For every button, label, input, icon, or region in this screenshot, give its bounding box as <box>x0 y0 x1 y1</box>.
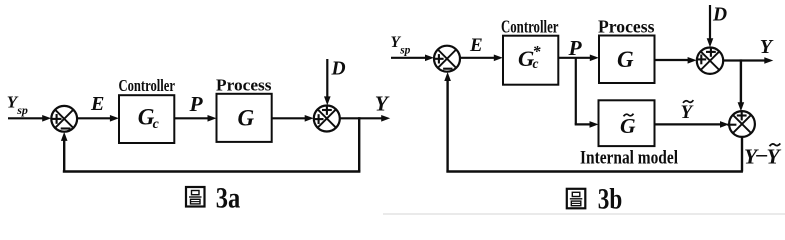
svg-text:Y: Y <box>375 92 390 116</box>
svg-text:P: P <box>568 36 583 60</box>
plus sign left S2b <box>696 55 706 65</box>
wire feedback up into S1a <box>61 132 68 173</box>
wire Gtilde to S3 <box>655 121 730 128</box>
block G process box (3a) <box>217 94 272 142</box>
wire feedback up into S1b <box>444 72 451 173</box>
plus sign S1a <box>52 114 62 124</box>
node Ysp label (3b) <box>391 34 411 56</box>
plus sign top S3 <box>737 111 747 121</box>
caption glyph TU (3a) <box>186 187 205 207</box>
block G process box (3b) <box>599 36 655 84</box>
plus sign top S2a <box>322 105 332 115</box>
svg-text:P: P <box>189 92 204 116</box>
wire P branch down to internal model <box>575 58 599 128</box>
plus sign left S2a <box>314 114 324 124</box>
svg-text:Process: Process <box>598 17 655 37</box>
wire S1a to controller block <box>77 115 119 122</box>
svg-text:c: c <box>153 117 160 132</box>
svg-text:sp: sp <box>16 103 28 117</box>
svg-text:*: * <box>533 44 542 61</box>
wire S1b to controller (3b) <box>460 55 503 62</box>
wire S2b to output Y <box>723 57 773 64</box>
summing junction S2b <box>697 48 723 74</box>
block Gc* controller box (3b) <box>503 36 558 85</box>
wire D into S2b <box>707 5 714 47</box>
summing junction S2a <box>314 106 340 132</box>
value Gc (3a) <box>138 105 160 132</box>
node Ysp label (3a) <box>7 93 28 117</box>
wire process to summing junction S2b <box>655 57 697 64</box>
summing junction S3 <box>729 111 755 137</box>
svg-text:3a: 3a <box>216 181 241 214</box>
svg-text:G: G <box>620 114 636 138</box>
block Gc controller box (3a) <box>119 95 174 143</box>
wire feedback bottom (3a) <box>63 170 361 173</box>
minus sign S1b <box>443 68 452 70</box>
wire S3 down to feedback (3b) <box>741 137 743 172</box>
wire process to summing junction S2a <box>272 115 314 122</box>
svg-text:Y: Y <box>767 144 782 168</box>
wire D into S2a <box>324 59 331 105</box>
plus sign top S2b <box>706 47 716 57</box>
node Ytilde label <box>681 100 695 123</box>
caption glyph TU (3b) <box>567 189 586 209</box>
wire Ysp to summing junction S1a <box>8 115 51 122</box>
wire Y branch down into S3 <box>738 59 745 111</box>
summing junction S1a <box>51 106 77 132</box>
wire controller to process (3a) <box>174 115 216 122</box>
svg-text:Process: Process <box>216 76 272 95</box>
svg-text:Internal model: Internal model <box>580 147 678 168</box>
wire feedback bottom (3b) <box>446 170 743 173</box>
scan artifact line bottom right <box>383 213 785 215</box>
svg-text:E: E <box>90 93 104 115</box>
minus sign S1a <box>61 127 71 129</box>
wire feedback branch down (3a) <box>358 117 360 171</box>
svg-text:D: D <box>712 5 727 26</box>
value Gc* (3b) <box>518 44 542 72</box>
svg-text:D: D <box>331 59 346 80</box>
wire Ysp to summing junction S1b <box>391 55 434 62</box>
svg-text:Controller: Controller <box>501 16 559 36</box>
svg-text:G: G <box>238 105 255 130</box>
svg-text:sp: sp <box>399 45 410 57</box>
svg-text:Controller: Controller <box>119 76 176 95</box>
svg-text:Y: Y <box>760 36 774 58</box>
wire S2a to output Y <box>340 115 390 122</box>
summing junction S1b <box>434 46 460 72</box>
svg-text:3b: 3b <box>598 182 623 215</box>
svg-text:E: E <box>469 35 483 56</box>
minus sign left S3 <box>727 124 736 126</box>
svg-text:G: G <box>617 47 634 72</box>
wire controller to process (3b) <box>558 55 599 62</box>
node Y minus Ytilde label <box>744 142 782 169</box>
plus sign S1b <box>434 54 443 63</box>
value Gtilde <box>620 114 636 138</box>
block Gtilde internal model box <box>599 100 655 146</box>
